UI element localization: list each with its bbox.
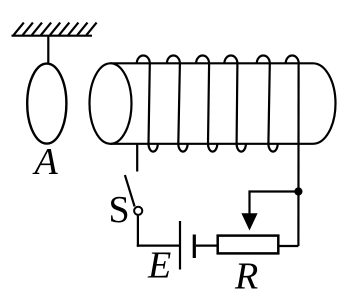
wire bottom left (switch to battery) [137,245,179,247]
coil turn 6 [286,55,299,63]
svg-text:S: S [109,189,130,231]
rheostat slider wire [250,192,299,219]
coil turn 2 [167,55,188,151]
svg-text:A: A [32,141,59,183]
rheostat slider arrowhead [241,213,257,230]
solenoid core (cylinder body) [111,63,336,144]
coil turn 5 [257,55,278,151]
solenoid core left face (ellipse) [90,63,132,144]
rheostat R body (box) [218,236,279,254]
battery E short plate [193,235,196,259]
coil left lead (down to switch) [136,144,138,172]
svg-text:R: R [234,256,258,296]
switch S blade [125,175,135,207]
junction dot [294,187,302,195]
wire battery to rheostat [196,245,217,247]
wire switch to bottom [137,216,139,247]
switch S contact circle [134,207,142,215]
ceiling support (hatched) [12,23,97,36]
rheostat right lead [279,245,298,247]
battery E long plate [179,221,181,270]
coil turn 3 [196,56,217,152]
string suspending A [47,36,49,65]
object A (hanging ellipse) [27,64,66,144]
coil turn 4 [224,55,246,151]
coil turn 1 [137,55,158,151]
coil right lead / wire down to junction [297,63,299,246]
svg-text:E: E [147,245,171,287]
